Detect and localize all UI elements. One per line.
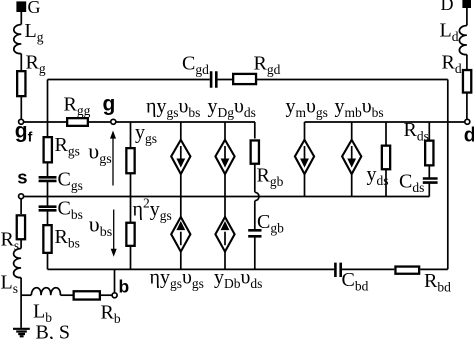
wire right vertical from top branch to bottom rail xyxy=(447,80,449,270)
resistor R_gg xyxy=(67,118,88,126)
wire source mid rail s to C_ds xyxy=(21,196,430,198)
capacitor C_gs xyxy=(39,177,57,181)
wire G to L_g xyxy=(20,12,22,25)
arrow v_gs measurement xyxy=(112,136,114,186)
node b xyxy=(112,293,117,298)
inductor L_g xyxy=(14,25,22,54)
wire main gate rail g_f to d xyxy=(21,121,255,123)
crossover bump over mid rail xyxy=(255,192,259,200)
resistor R_d xyxy=(463,70,471,93)
wire R_d to node d xyxy=(466,93,468,119)
capacitor C_gd xyxy=(211,71,216,88)
arrow v_bs measurement xyxy=(113,210,115,252)
wire junction to L_b xyxy=(21,294,31,296)
wire R_bs to bottom rail xyxy=(47,254,49,270)
wire crossover to C_gb xyxy=(254,201,256,230)
resistor R_gb xyxy=(254,122,256,139)
resistor R_gs xyxy=(44,137,52,162)
wire drain rail xyxy=(305,121,468,123)
current source eta*y_gs*v_gs (up) xyxy=(180,197,182,270)
ground xyxy=(13,329,30,337)
current source y_mb*v_bs (down) xyxy=(351,122,353,197)
terminal G xyxy=(16,1,26,12)
svg-text:G: G xyxy=(28,0,41,17)
resistor R_g xyxy=(17,71,25,96)
current source eta*y_gs*v_bs (down) xyxy=(180,122,182,197)
resistor R_ds xyxy=(428,122,430,141)
wire top branch horizontal xyxy=(48,79,448,81)
wire L_g to R_g xyxy=(20,54,22,70)
wire R_gb down to crossover xyxy=(254,165,256,193)
admittance eta^2 y_gs xyxy=(130,197,132,270)
wire L_b to R_b xyxy=(60,294,72,296)
wire D to L_d xyxy=(466,8,468,26)
admittance y_gs xyxy=(130,122,132,197)
wire R_gs to C_gs xyxy=(47,163,49,177)
resistor R_bd xyxy=(395,267,419,274)
svg-text:b: b xyxy=(119,277,130,297)
inductor L_s xyxy=(14,249,22,278)
wire C_ds to mid rail end xyxy=(428,183,430,197)
capacitor C_bs xyxy=(39,207,57,211)
resistor R_bs xyxy=(43,225,51,253)
current source y_Db*v_ds (up) xyxy=(224,197,226,270)
svg-text:d: d xyxy=(464,125,474,147)
capacitor C_bd xyxy=(335,263,340,277)
inductor L_d xyxy=(459,26,467,55)
wire C_bs to R_bs xyxy=(47,210,49,224)
wire C_gs to mid rail to C_bs xyxy=(47,181,49,207)
wire s to R_s xyxy=(20,200,22,215)
node g xyxy=(111,119,116,124)
wire b to bottom rail xyxy=(114,269,116,292)
inductor L_b xyxy=(31,288,60,296)
wire bulk bottom rail xyxy=(48,268,448,270)
node s xyxy=(19,194,24,199)
current source y_m*v_gs (down) xyxy=(304,122,306,197)
svg-text:B, S: B, S xyxy=(36,322,70,339)
node d xyxy=(465,119,470,124)
svg-text:s: s xyxy=(17,166,27,187)
wire L_s to ground junction xyxy=(20,278,22,328)
resistor R_b xyxy=(74,291,100,299)
svg-text:g: g xyxy=(103,93,116,116)
capacitor C_ds xyxy=(423,179,438,183)
wire R_ds to C_ds xyxy=(428,166,430,179)
wire R_b to node b xyxy=(101,294,112,296)
wire R_g to g_f xyxy=(20,97,22,120)
wire L_d to R_d xyxy=(466,55,468,70)
node g_f xyxy=(19,119,24,124)
terminal D xyxy=(462,0,471,8)
svg-text:D: D xyxy=(441,0,454,14)
resistor R_gd xyxy=(233,74,256,84)
wire left vertical top branch to R_gs xyxy=(47,80,49,137)
admittance y_ds xyxy=(385,122,387,197)
wire R_s to L_s xyxy=(20,240,22,249)
capacitor C_gb xyxy=(248,230,261,236)
wire C_gb to bottom rail xyxy=(254,237,256,269)
resistor R_s xyxy=(17,215,25,239)
current source y_Dg*v_ds (down) xyxy=(224,122,226,197)
